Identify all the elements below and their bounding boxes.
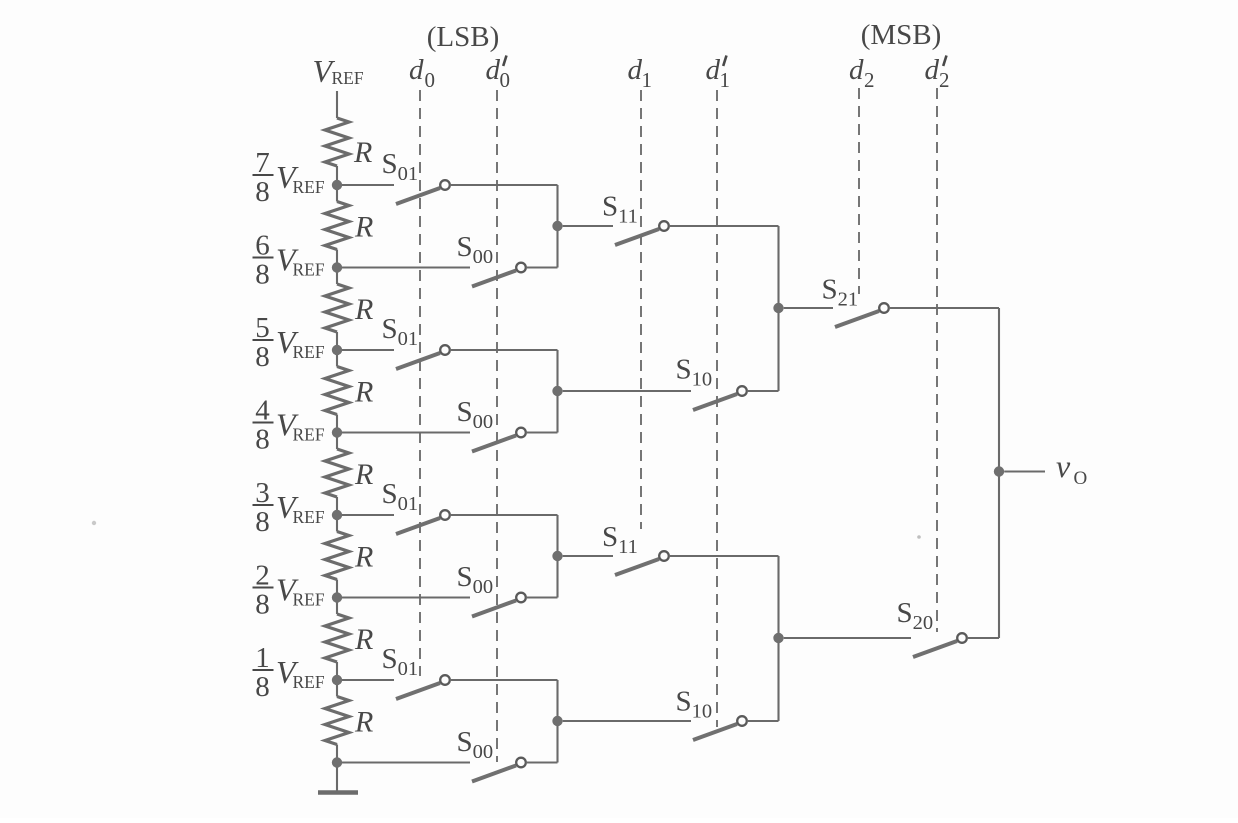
resistor R (7 of 8) <box>336 598 338 615</box>
switch S01 (pair 3) blade <box>396 518 440 534</box>
svg-text:R: R <box>354 623 373 656</box>
svg-text:REF: REF <box>293 260 325 280</box>
svg-text:v: v <box>1056 448 1071 484</box>
svg-text:8: 8 <box>255 259 270 291</box>
switch S10 (group 2) contact <box>737 716 747 726</box>
resistor R (top, VREF to 7/8 tap) <box>325 118 349 166</box>
node 7/8 VREF <box>332 180 342 190</box>
node stage-1 junction (pair 4) <box>552 716 562 726</box>
wire tap 1/8 to switch S01 (pair 4) <box>342 679 394 681</box>
svg-text:2: 2 <box>939 68 950 92</box>
switch S21 contact <box>879 303 889 313</box>
control line d2' (dashed) <box>936 88 938 632</box>
svg-text:8: 8 <box>255 341 270 373</box>
wire stage-1 bus (pair 4) <box>556 680 558 763</box>
switch S01 (pair 1) contact <box>440 180 450 190</box>
resistor R (5 of 8) <box>336 433 338 450</box>
switch S00 (pair 3) contact <box>516 593 526 603</box>
resistor R (4 of 8) <box>336 350 338 367</box>
wire S00 contact to bus (pair 2) <box>526 431 558 433</box>
switch S21 blade <box>835 311 879 327</box>
wire S20 contact to output bus <box>967 637 999 639</box>
switch S11 (group 2) blade <box>615 559 659 575</box>
wire junction to switch S11 (group 2) <box>563 555 613 557</box>
node 5/8 VREF <box>332 345 342 355</box>
wire stage-1 bus (pair 3) <box>556 515 558 598</box>
switch S00 (pair 1) contact <box>516 263 526 273</box>
control line d2 (dashed) <box>858 88 860 294</box>
svg-text:R: R <box>354 541 373 574</box>
svg-text:R: R <box>354 376 373 409</box>
svg-text:0: 0 <box>500 68 511 92</box>
switch S11 (group 1) blade <box>615 229 659 245</box>
svg-text:O: O <box>1074 468 1088 489</box>
wire junction to switch S10 (group 1) <box>563 390 691 392</box>
wire S00 contact to bus (pair 3) <box>526 596 558 598</box>
svg-text:1: 1 <box>642 68 653 92</box>
control line d1 (dashed) <box>640 90 642 529</box>
svg-text:R: R <box>354 706 373 739</box>
switch S20 contact <box>957 633 967 643</box>
wire junction to switch S20 <box>784 637 911 639</box>
switch S01 (pair 2) blade <box>396 353 440 369</box>
switch S10 (group 1) contact <box>737 386 747 396</box>
switch S01 (pair 3) contact <box>440 510 450 520</box>
svg-text:R: R <box>354 458 373 491</box>
svg-text:REF: REF <box>293 507 325 527</box>
svg-text:R: R <box>354 293 373 326</box>
wire S01 contact to bus (pair 3) <box>450 514 558 516</box>
switch S11 (group 1) contact <box>659 221 669 231</box>
wire junction to switch S21 <box>784 307 833 309</box>
svg-text:REF: REF <box>332 68 364 88</box>
svg-text:REF: REF <box>293 590 325 610</box>
node 3/8 VREF <box>332 510 342 520</box>
node stage-2 junction (group 1) <box>773 303 783 313</box>
node 6/8 VREF <box>332 262 342 272</box>
svg-text:d: d <box>925 54 940 86</box>
wire stage-2 bus (group 2) <box>777 556 779 721</box>
wire S10 contact to stage-2 bus (group 1) <box>747 390 779 392</box>
svg-text:REF: REF <box>293 672 325 692</box>
switch S00 (pair 2) blade <box>472 436 516 452</box>
svg-text:REF: REF <box>293 177 325 197</box>
switch S01 (pair 4) blade <box>396 683 440 699</box>
wire S11 contact to stage-2 bus (group 2) <box>669 555 779 557</box>
switch S01 (pair 1) blade <box>396 188 440 204</box>
svg-text:0: 0 <box>425 68 436 92</box>
node 2/8 VREF <box>332 592 342 602</box>
wire S21 contact to output bus <box>889 307 999 309</box>
wire stage-2 bus (group 1) <box>777 226 779 391</box>
node 4/8 VREF <box>332 427 342 437</box>
wire tap 6/8 to switch S00 (pair 1) <box>342 266 470 268</box>
wire S01 contact to bus (pair 1) <box>450 184 558 186</box>
wire ladder bottom to ground <box>336 763 338 792</box>
wire tap 7/8 to switch S01 (pair 1) <box>342 184 394 186</box>
svg-text:2: 2 <box>864 68 875 92</box>
wire S11 contact to stage-2 bus (group 1) <box>669 225 779 227</box>
resistor R (8 of 8) <box>336 680 338 697</box>
switch S11 (group 2) contact <box>659 551 669 561</box>
switch S00 (pair 3) blade <box>472 601 516 617</box>
switch S01 (pair 4) contact <box>440 675 450 685</box>
control line d1' (dashed) <box>716 90 718 727</box>
switch S00 (pair 1) blade <box>472 271 516 287</box>
svg-text:(MSB): (MSB) <box>861 19 942 51</box>
svg-text:REF: REF <box>293 425 325 445</box>
wire tap bottom to switch S00 (pair 4) <box>342 761 470 763</box>
svg-text:8: 8 <box>255 424 270 456</box>
wire junction to switch S10 (group 2) <box>563 720 691 722</box>
svg-text:(LSB): (LSB) <box>427 21 500 53</box>
svg-text:REF: REF <box>293 342 325 362</box>
wire junction to switch S11 (group 1) <box>563 225 613 227</box>
svg-text:R: R <box>353 136 372 169</box>
resistor R (2 of 8) <box>336 185 338 202</box>
switch S20 blade <box>913 641 957 657</box>
svg-text:R: R <box>354 211 373 244</box>
control line d0 (dashed) <box>419 90 421 676</box>
switch S10 (group 2) blade <box>693 724 737 740</box>
svg-text:d: d <box>486 54 501 86</box>
wire stage-1 bus (pair 1) <box>556 185 558 268</box>
wire VREF top lead <box>336 91 338 118</box>
svg-text:d: d <box>849 54 864 86</box>
switch S10 (group 1) blade <box>693 394 737 410</box>
speck (scan artifact, right) <box>917 535 921 539</box>
control line d0' (dashed) <box>496 90 498 762</box>
switch S00 (pair 4) contact <box>516 758 526 768</box>
ground <box>318 790 358 795</box>
wire S01 contact to bus (pair 2) <box>450 349 558 351</box>
resistor R (6 of 8) <box>336 515 338 532</box>
node bottom (ground) node <box>332 757 342 767</box>
svg-text:d: d <box>706 54 721 86</box>
wire S01 contact to bus (pair 4) <box>450 679 558 681</box>
node vO output junction <box>994 466 1004 476</box>
node stage-2 junction (group 2) <box>773 633 783 643</box>
svg-text:8: 8 <box>255 506 270 538</box>
svg-text:8: 8 <box>255 589 270 621</box>
wire tap 4/8 to switch S00 (pair 2) <box>342 431 470 433</box>
switch S00 (pair 2) contact <box>516 428 526 438</box>
node stage-1 junction (pair 2) <box>552 386 562 396</box>
wire stage-1 bus (pair 2) <box>556 350 558 433</box>
svg-text:8: 8 <box>255 176 270 208</box>
switch S01 (pair 2) contact <box>440 345 450 355</box>
wire S00 contact to bus (pair 4) <box>526 761 558 763</box>
resistor R (3 of 8) <box>336 268 338 285</box>
node stage-1 junction (pair 1) <box>552 221 562 231</box>
svg-text:1: 1 <box>720 68 731 92</box>
node stage-1 junction (pair 3) <box>552 551 562 561</box>
svg-text:d: d <box>409 54 424 86</box>
wire S10 contact to stage-2 bus (group 2) <box>747 720 779 722</box>
wire output bus vertical <box>998 308 1000 638</box>
svg-text:d: d <box>628 54 643 86</box>
wire tap 5/8 to switch S01 (pair 2) <box>342 349 394 351</box>
wire tap 2/8 to switch S00 (pair 3) <box>342 596 470 598</box>
node 1/8 VREF <box>332 675 342 685</box>
switch S00 (pair 4) blade <box>472 766 516 782</box>
wire tap 3/8 to switch S01 (pair 3) <box>342 514 394 516</box>
svg-text:8: 8 <box>255 671 270 703</box>
wire S00 contact to bus (pair 1) <box>526 266 558 268</box>
wire vO stub <box>1004 470 1045 472</box>
speck (scan artifact, left) <box>92 521 96 525</box>
